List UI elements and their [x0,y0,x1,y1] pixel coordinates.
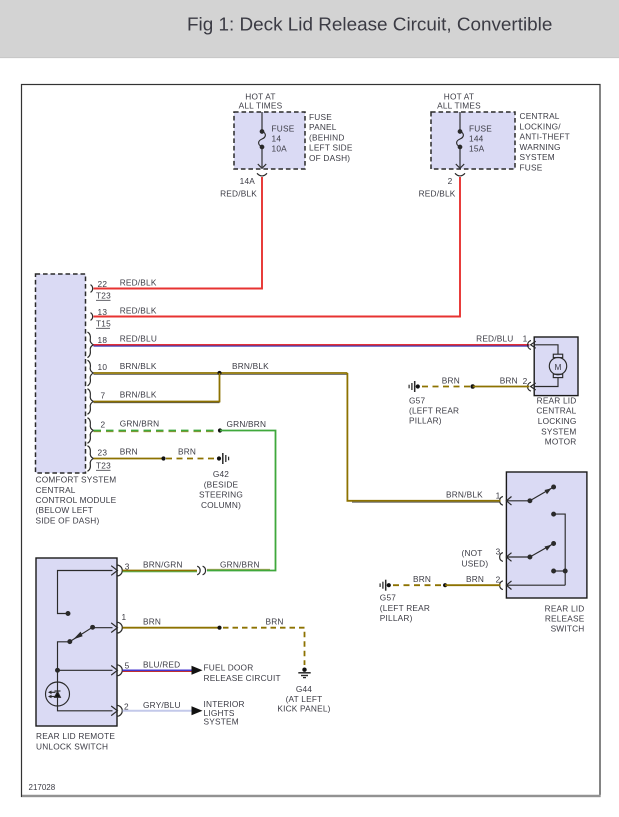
svg-text:G57: G57 [409,395,425,405]
svg-text:REAR LID REMOTE: REAR LID REMOTE [36,731,115,741]
svg-text:FUSE: FUSE [272,124,295,134]
svg-text:1: 1 [523,334,528,344]
svg-text:BRN: BRN [442,375,460,385]
svg-text:2: 2 [496,575,501,585]
svg-text:(BELOW LEFT: (BELOW LEFT [36,505,94,515]
release switch internals [507,485,568,585]
svg-text:BRN/BLK: BRN/BLK [232,361,269,371]
fuse F144 element [456,112,464,168]
svg-text:RED/BLK: RED/BLK [120,306,157,316]
svg-text:(BESIDE: (BESIDE [204,479,239,489]
svg-text:22: 22 [98,279,108,289]
pin 10 (module) [88,360,94,386]
svg-text:STEERING: STEERING [199,490,243,500]
switch internal wiring [56,571,113,711]
svg-text:FUSE: FUSE [309,112,332,122]
svg-text:(NOT: (NOT [462,548,483,558]
pin 2 (release switch) [500,581,512,590]
svg-text:LEFT SIDE: LEFT SIDE [309,143,353,153]
svg-text:PILLAR): PILLAR) [380,613,413,623]
svg-text:REAR LID: REAR LID [545,603,585,613]
pin 3 (unlock switch) [111,565,122,576]
svg-text:GRN/BRN: GRN/BRN [227,419,267,429]
wire BRN solid to junction [123,627,220,629]
release switch box [506,472,587,598]
wire BRN dashed G57 to junction (motor side) [422,386,470,388]
svg-text:G57: G57 [380,593,396,603]
svg-text:MOTOR: MOTOR [545,437,577,447]
ground G57 (release switch side) [380,580,391,591]
svg-text:14A: 14A [240,176,256,186]
wire BRN/GRN to inline connector [123,570,198,572]
unlock switch box [36,558,117,726]
junction node pin1 wire [217,626,221,630]
svg-text:T15: T15 [96,319,111,329]
control module box (dashed) [36,274,86,473]
svg-text:SIDE OF DASH): SIDE OF DASH) [36,515,100,525]
svg-text:BRN/BLK: BRN/BLK [120,361,157,371]
svg-text:BLU/RED: BLU/RED [143,659,180,669]
pin 18 (module) [88,332,94,358]
svg-text:BRN: BRN [266,617,284,627]
connector receptacle below fuse 144 [455,173,465,176]
svg-text:BRN: BRN [178,447,196,457]
svg-text:GRN/BRN: GRN/BRN [220,559,260,569]
svg-text:WARNING: WARNING [520,142,561,152]
wire BRN dashed to G44 [223,628,305,665]
pin 3 (release switch) [500,553,512,562]
label HOT AT ALL TIMES (fuse 144) [437,92,481,111]
label REAR LID RELEASE SWITCH [545,603,585,633]
svg-text:BRN/BLK: BRN/BLK [446,489,483,499]
ground G57 (motor side) [409,381,420,392]
junction node pin2 wire [218,428,222,432]
svg-text:LOCKING: LOCKING [538,416,577,426]
ground G44 [298,668,310,678]
wire RED/BLK fuse14 to module pin 22 [94,177,263,289]
svg-text:ALL TIMES: ALL TIMES [239,100,283,110]
svg-text:(AT LEFT: (AT LEFT [286,694,323,704]
label FUSE PANEL (BEHIND LEFT SIDE OF DASH) [309,112,353,163]
svg-text:M: M [554,362,561,372]
wire GRY/BLU to interior lights [123,710,193,712]
pin 7 (module) [88,389,94,415]
svg-text:SYSTEM: SYSTEM [520,152,555,162]
svg-text:CENTRAL: CENTRAL [36,485,76,495]
pin 2 (unlock switch) [111,705,122,716]
wire BRN solid to motor pin 2 [473,386,530,388]
title bar [0,0,619,58]
lever arrowhead pin1 [545,488,552,494]
pin 23 (module) [88,446,94,472]
svg-text:FUSE: FUSE [520,163,543,173]
switch lever arrowhead [73,632,82,640]
label INTERIOR LIGHTS SYSTEM [204,699,245,726]
pin 2 (module) [88,418,94,444]
label COMFORT SYSTEM CENTRAL CONTROL MODULE [36,475,117,526]
svg-text:10A: 10A [272,144,288,154]
svg-text:RELEASE: RELEASE [545,614,585,624]
svg-text:ANTI-THEFT: ANTI-THEFT [520,132,570,142]
pin 2 (motor) [528,382,536,391]
pin 1 (unlock switch) [111,622,122,633]
svg-text:UNLOCK SWITCH: UNLOCK SWITCH [36,741,108,751]
wire RED/BLK fuse144 to module pin 13 [94,177,461,317]
svg-text:SWITCH: SWITCH [551,624,585,634]
svg-text:14: 14 [272,134,282,144]
wire BRN/BLK module pin10 to release switch path [94,372,348,374]
connector receptacle below fuse 14 [257,173,267,176]
svg-text:OF DASH): OF DASH) [309,153,350,163]
svg-text:G44: G44 [296,684,312,694]
wire BLU/RED to fuel door circuit [123,669,193,671]
motor M symbol [535,345,567,387]
svg-text:13: 13 [98,307,108,317]
svg-text:RED/BLU: RED/BLU [120,333,157,343]
svg-text:Fig 1: Deck Lid Release Circui: Fig 1: Deck Lid Release Circuit, Convert… [187,14,552,35]
fuse F14 element [258,112,266,168]
svg-text:BRN: BRN [143,617,161,627]
svg-text:LOCKING/: LOCKING/ [520,121,562,131]
svg-text:COLUMN): COLUMN) [201,500,241,510]
svg-text:SYSTEM: SYSTEM [541,426,576,436]
arrow to fuel door release circuit [192,666,203,675]
label REAR LID CENTRAL LOCKING SYSTEM MOTOR [536,395,576,446]
pin 1 (motor) [528,341,536,350]
svg-text:GRN/BRN: GRN/BRN [120,419,160,429]
LED indicator [46,682,70,706]
pin 13 (module) [91,313,93,321]
svg-text:CONTROL MODULE: CONTROL MODULE [36,495,117,505]
svg-text:1: 1 [122,612,127,622]
svg-text:(LEFT REAR: (LEFT REAR [409,406,459,416]
svg-text:(LEFT REAR: (LEFT REAR [380,603,430,613]
wire BRN/BLK module pin7 up to junction [94,373,220,402]
wire BRN solid to release switch pin 2 [445,584,500,586]
svg-text:10: 10 [98,362,108,372]
svg-text:2: 2 [448,176,453,186]
wire BRN dashed G57 to junction (release side) [393,584,443,586]
svg-text:3: 3 [496,547,501,557]
svg-text:GRY/BLU: GRY/BLU [143,700,181,710]
svg-text:T23: T23 [96,291,111,301]
svg-text:BRN/GRN: BRN/GRN [143,559,183,569]
fuse panel box (dashed) [234,112,305,169]
motor box [534,337,578,396]
svg-text:REAR LID: REAR LID [537,395,577,405]
label (NOT USED) [462,548,489,569]
pin 1 (release switch) [500,496,512,505]
label FUEL DOOR RELEASE CIRCUIT [204,663,281,683]
label CENTRAL LOCKING/ANTI-THEFT WARNING SYSTEM FUSE [520,111,570,173]
svg-text:RED/BLK: RED/BLK [120,278,157,288]
svg-text:T23: T23 [96,461,111,471]
svg-text:ALL TIMES: ALL TIMES [437,100,481,110]
svg-text:CENTRAL: CENTRAL [536,406,576,416]
svg-text:FUSE: FUSE [469,124,492,134]
svg-text:RED/BLK: RED/BLK [220,189,257,199]
svg-text:USED): USED) [462,558,489,568]
wire GRN/BRN dashed segment [94,430,221,432]
svg-text:COMFORT SYSTEM: COMFORT SYSTEM [36,475,117,485]
value label FUSE 144 15A [469,124,492,154]
svg-text:18: 18 [98,335,108,345]
wire BRN dashed to G42 [166,458,216,460]
svg-text:1: 1 [496,490,501,500]
svg-text:15A: 15A [469,144,485,154]
svg-text:RED/BLK: RED/BLK [419,189,456,199]
lever arrowhead pin3 [545,545,552,551]
svg-text:G42: G42 [213,469,229,479]
value label FUSE 14 10A [272,124,295,154]
inline connector (pin3 to GRN/BRN) [197,566,205,575]
svg-text:BRN/BLK: BRN/BLK [120,390,157,400]
svg-text:BRN: BRN [120,447,138,457]
pin 22 (module) [91,285,93,293]
svg-text:BRN: BRN [466,574,484,584]
svg-text:PANEL: PANEL [309,122,337,132]
svg-text:144: 144 [469,134,484,144]
wire BRN solid to junction [94,458,164,460]
ground G42 [217,453,229,464]
svg-text:FUEL DOOR: FUEL DOOR [204,663,254,673]
svg-text:5: 5 [125,660,130,670]
svg-text:RED/BLU: RED/BLU [476,333,513,343]
label HOT AT ALL TIMES (fuse 14) [239,92,283,111]
svg-text:2: 2 [523,376,528,386]
junction node pin23 wire [161,456,165,460]
label G57 (LEFT REAR PILLAR) release side [380,593,430,623]
wire BRN/BLK junction to release switch pin 1 [347,373,500,501]
wire GRN/BRN solid to inline connector [207,431,276,571]
junction node motor BRN [470,384,475,389]
svg-text:23: 23 [98,447,108,457]
junction node release BRN [443,583,447,587]
svg-text:217028: 217028 [29,783,56,792]
svg-text:7: 7 [101,390,106,400]
pin 5 (unlock switch) [111,665,122,676]
central locking fuse box (dashed) [431,112,515,169]
svg-text:(BEHIND: (BEHIND [309,132,345,142]
svg-text:CENTRAL: CENTRAL [520,111,560,121]
wire RED/BLU module pin18 to motor pin1 [94,344,530,346]
svg-text:BRN: BRN [500,375,518,385]
svg-text:BRN: BRN [413,574,431,584]
svg-text:RELEASE CIRCUIT: RELEASE CIRCUIT [204,673,281,683]
svg-text:PILLAR): PILLAR) [409,416,442,426]
arrow to interior lights system [192,706,203,715]
svg-text:SYSTEM: SYSTEM [204,717,239,727]
svg-text:2: 2 [101,419,106,429]
svg-text:KICK PANEL): KICK PANEL) [277,704,330,714]
label G44 (AT LEFT KICK PANEL) [277,684,330,714]
label G42 (BESIDE STEERING COLUMN) [199,469,243,510]
label REAR LID REMOTE UNLOCK SWITCH [36,731,115,751]
label G57 (LEFT REAR PILLAR) motor side [409,395,459,425]
junction node pin10/pin7 [217,371,221,375]
